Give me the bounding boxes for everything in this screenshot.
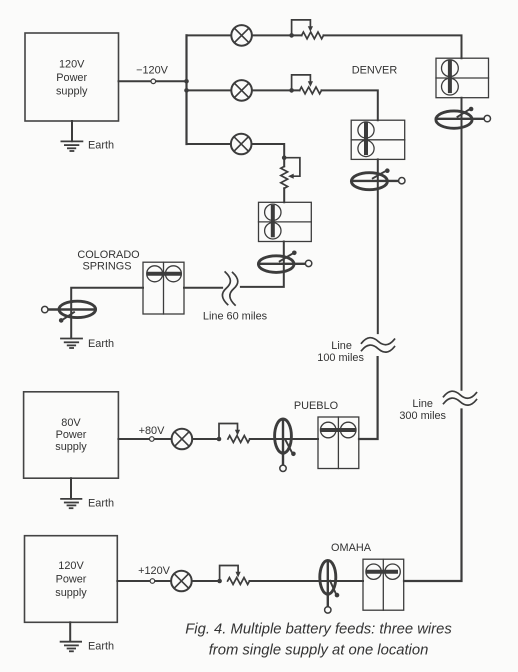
wire K4 to key S4 and ground bbox=[71, 288, 143, 339]
node -120V (open circle) bbox=[151, 79, 156, 84]
svg-text:Line 60 miles: Line 60 miles bbox=[203, 311, 268, 323]
wire rheostat R4 to relay K5 bbox=[250, 438, 318, 440]
key S2 (Denver middle) bbox=[351, 168, 405, 189]
svg-text:300 miles: 300 miles bbox=[399, 410, 446, 422]
label Line 100 miles bbox=[317, 340, 364, 364]
key S4 (Colorado Springs) bbox=[42, 301, 96, 323]
relay K5 (Pueblo) bbox=[318, 417, 359, 469]
svg-text:Power: Power bbox=[56, 429, 87, 441]
svg-text:from single supply at one loca: from single supply at one location bbox=[209, 643, 429, 659]
power supply PS2 (80V, Pueblo) bbox=[24, 392, 119, 478]
svg-text:+80V: +80V bbox=[139, 425, 165, 437]
node +80V (open circle) bbox=[150, 437, 155, 442]
ground (Earth, Omaha) bbox=[61, 642, 82, 652]
svg-text:80V: 80V bbox=[61, 417, 81, 429]
rheostat R4 (Pueblo) bbox=[217, 424, 250, 443]
wire K2 to line 100 break bbox=[377, 159, 379, 333]
lamp DS1 bbox=[231, 25, 252, 46]
svg-text:+120V: +120V bbox=[138, 565, 171, 577]
power supply PS3 (120V, Omaha) bbox=[25, 536, 118, 623]
wire branch 3 bbox=[187, 144, 285, 158]
wire feed -120V bbox=[119, 80, 187, 82]
line break (Line 300 miles) bbox=[444, 391, 477, 405]
svg-text:−120V: −120V bbox=[136, 65, 169, 77]
relay K3 bbox=[259, 202, 312, 241]
svg-text:100 miles: 100 miles bbox=[317, 352, 364, 364]
label Line 300 miles bbox=[399, 398, 446, 422]
lamp DS4 (Pueblo) bbox=[172, 429, 193, 450]
node +120V (open circle) bbox=[150, 579, 155, 584]
wire PS3 to ground bbox=[69, 622, 71, 641]
svg-text:Line: Line bbox=[412, 398, 433, 410]
svg-text:PUEBLO: PUEBLO bbox=[294, 400, 338, 412]
svg-text:Power: Power bbox=[56, 574, 87, 586]
key S3 bbox=[258, 251, 311, 273]
svg-text:Earth: Earth bbox=[88, 498, 114, 510]
ground (Earth, PS1) bbox=[61, 141, 82, 151]
svg-text:Earth: Earth bbox=[88, 641, 114, 653]
caption Fig. 4 bbox=[185, 622, 452, 659]
svg-text:supply: supply bbox=[55, 587, 87, 599]
relay K1 (Denver top) bbox=[436, 58, 489, 97]
relay K6 (Omaha) bbox=[363, 559, 404, 610]
label COLORADO SPRINGS bbox=[77, 249, 139, 273]
lamp DS2 bbox=[231, 80, 252, 101]
relay K4 (Colorado Springs) bbox=[143, 262, 184, 314]
junction branch2-bus bbox=[184, 88, 189, 93]
rheostat R2 bbox=[289, 75, 321, 94]
relay K2 (Denver middle) bbox=[351, 120, 405, 159]
svg-text:Earth: Earth bbox=[88, 140, 114, 152]
wire PS2 to ground bbox=[70, 478, 72, 499]
wire right vertical to Omaha relay bbox=[404, 410, 462, 582]
wire line 60 to Colorado Springs relay bbox=[184, 287, 222, 289]
wire feed +80V bbox=[118, 438, 219, 440]
power supply PS1 (120V, top left) bbox=[25, 33, 119, 121]
ground (Earth, Pueblo) bbox=[61, 499, 81, 508]
svg-text:Earth: Earth bbox=[88, 338, 114, 350]
svg-text:SPRINGS: SPRINGS bbox=[82, 261, 131, 273]
svg-text:OMAHA: OMAHA bbox=[331, 542, 372, 554]
wire K3 to key S3 and line 60 bbox=[241, 242, 284, 287]
key S1 (Denver top) bbox=[436, 107, 491, 129]
junction feed-bus bbox=[184, 79, 189, 84]
wire branch 1 bbox=[187, 34, 302, 36]
svg-text:COLORADO: COLORADO bbox=[77, 249, 139, 261]
rheostat R1 bbox=[289, 20, 323, 39]
lamp DS5 (Omaha) bbox=[171, 571, 192, 592]
ground (Earth, Colorado Springs) bbox=[61, 339, 82, 349]
key S6 (Omaha) bbox=[320, 560, 340, 613]
svg-text:Line: Line bbox=[331, 340, 352, 352]
wire branch 2 to Denver relay K2 bbox=[322, 90, 378, 120]
svg-text:supply: supply bbox=[55, 441, 87, 453]
wire rheostat R5 to relay K6 bbox=[250, 580, 364, 582]
line break (Line 60 miles) bbox=[222, 272, 237, 305]
svg-text:120V: 120V bbox=[59, 59, 85, 71]
wire branch 2 bbox=[187, 89, 300, 91]
wire PS1 to ground bbox=[71, 121, 73, 141]
wire feed +120V bbox=[117, 580, 219, 582]
rheostat R3 (vertical) bbox=[281, 155, 300, 202]
lamp DS3 bbox=[231, 134, 252, 155]
wire branch 1 to Denver relay K1 bbox=[324, 35, 462, 58]
wire line 100 to Pueblo relay bbox=[359, 357, 378, 439]
svg-text:120V: 120V bbox=[58, 560, 84, 572]
wire bus vertical bbox=[185, 35, 187, 144]
wire K1 to key S1 bbox=[461, 98, 463, 390]
svg-text:Power: Power bbox=[56, 72, 87, 84]
line break (Line 100 miles) bbox=[362, 338, 395, 352]
rheostat R5 (Omaha) bbox=[217, 566, 249, 585]
key S5 (Pueblo) bbox=[275, 419, 296, 471]
svg-text:DENVER: DENVER bbox=[352, 65, 398, 77]
svg-text:Fig. 4. Multiple battery feeds: Fig. 4. Multiple battery feeds: three wi… bbox=[185, 622, 452, 638]
svg-text:supply: supply bbox=[56, 86, 88, 98]
